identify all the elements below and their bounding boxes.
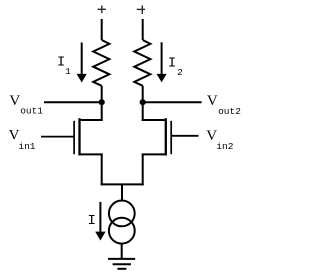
label V_out2 bbox=[207, 93, 241, 117]
svg-text:2: 2 bbox=[177, 67, 183, 78]
wire: V_out2 lead bbox=[143, 101, 202, 103]
current arrow I2 bbox=[157, 42, 167, 82]
wire: tail to current source bbox=[121, 184, 123, 201]
drain lead bbox=[101, 102, 103, 121]
drain lead bbox=[142, 102, 144, 121]
wire: common source rail bbox=[101, 183, 144, 185]
svg-text:I: I bbox=[57, 55, 65, 71]
transistor (right NMOS) bbox=[142, 102, 172, 185]
resistor (right branch) bbox=[134, 40, 150, 86]
wire: left resistor to node bbox=[101, 86, 103, 102]
label I1 bbox=[57, 55, 71, 78]
svg-text:in1: in1 bbox=[18, 141, 35, 152]
wire: current source to ground bbox=[121, 244, 123, 260]
ground bbox=[108, 259, 135, 269]
label I2 bbox=[168, 56, 183, 79]
svg-text:I: I bbox=[88, 213, 96, 229]
current arrow I1 bbox=[77, 43, 87, 83]
supply + symbol (right) bbox=[137, 5, 145, 14]
label V_in2 bbox=[206, 128, 234, 152]
wire: right resistor to node bbox=[142, 86, 144, 102]
wire: right supply to resistor bbox=[142, 19, 144, 40]
label V_in1 bbox=[9, 128, 36, 153]
node: V_out2 junction dot bbox=[140, 99, 146, 105]
label I (tail current) bbox=[88, 213, 96, 229]
svg-text:I: I bbox=[168, 56, 176, 72]
transistor (left NMOS) bbox=[74, 102, 103, 185]
gate bar bbox=[170, 121, 172, 154]
channel bar bbox=[78, 118, 80, 155]
resistor (left branch) bbox=[93, 40, 109, 86]
current source (tail, two overlapping circles) bbox=[109, 201, 135, 244]
svg-text:1: 1 bbox=[65, 66, 71, 77]
svg-text:out1: out1 bbox=[20, 105, 43, 116]
source lead bbox=[142, 153, 166, 155]
svg-text:V: V bbox=[9, 93, 20, 109]
gate bar bbox=[73, 121, 75, 154]
wire: left supply to resistor bbox=[101, 19, 103, 40]
source lead bbox=[80, 153, 103, 155]
supply + symbol (left) bbox=[98, 6, 106, 14]
svg-text:V: V bbox=[207, 93, 218, 109]
svg-text:out2: out2 bbox=[218, 106, 241, 117]
node: V_out1 junction dot bbox=[99, 99, 105, 105]
wire: V_in1 gate lead bbox=[41, 136, 74, 138]
label V_out1 bbox=[9, 93, 43, 116]
wire: V_in2 gate lead bbox=[171, 135, 198, 137]
current arrow I (tail) bbox=[95, 202, 105, 241]
channel bar bbox=[165, 118, 167, 155]
wire: V_out1 lead bbox=[44, 101, 102, 103]
svg-text:in2: in2 bbox=[216, 141, 233, 152]
